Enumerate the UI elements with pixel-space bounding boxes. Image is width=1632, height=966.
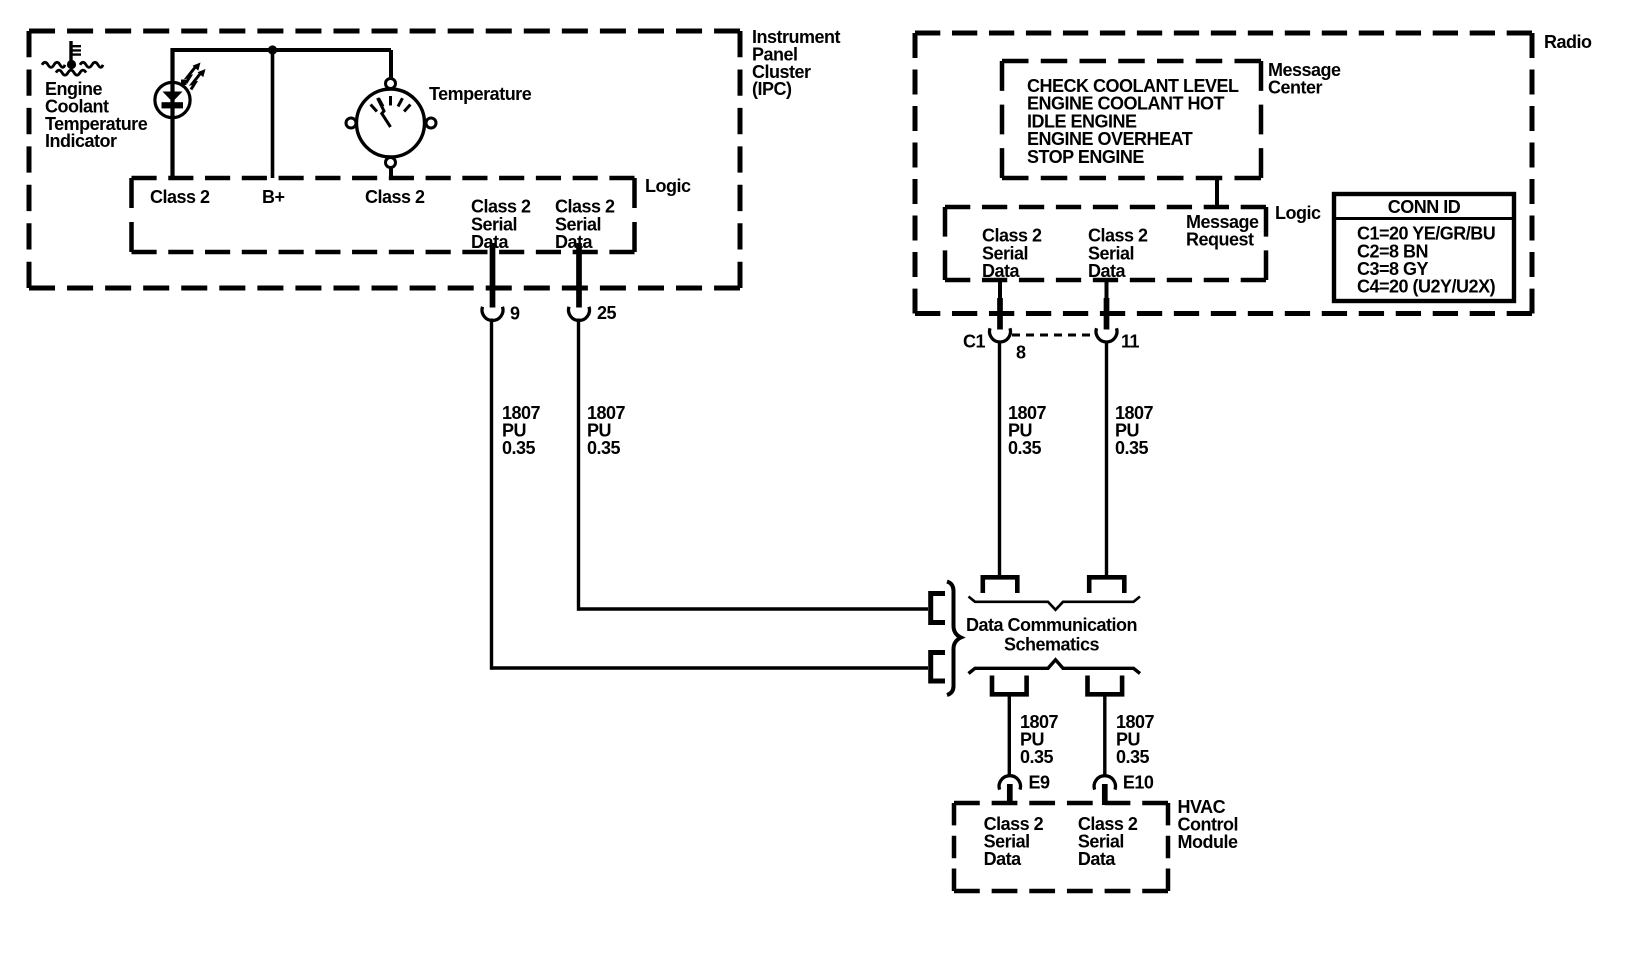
module box: Instrument Panel Cluster (IPC) [29,31,740,288]
wire: gauge bottom to logic [389,168,393,178]
svg-text:Class 2: Class 2 [150,187,210,207]
label Instrument Panel Cluster (IPC) [752,27,841,99]
svg-text:(IPC): (IPC) [752,79,792,99]
dashed connector tie C1 [1012,334,1090,337]
message center box [1002,61,1261,178]
wire 1807 PU from radio pin 11 [1105,341,1108,576]
svg-text:B+: B+ [262,187,285,207]
svg-text:Data: Data [555,232,594,252]
terminal: wire from radio pin 11 into data comm [1089,577,1124,593]
label Data Communication Schematics [966,615,1137,654]
wire label 1807 PU 0.35 (pin 25 wire) [587,403,626,458]
svg-text:C1: C1 [963,332,985,352]
pin stub: HVAC pin E10 [1102,784,1108,805]
pin label Class 2 Serial Data (HVAC E10) [1078,814,1138,869]
IPC logic box [132,178,635,252]
wire label 1807 PU 0.35 (pin 9 wire) [502,403,541,458]
svg-text:0.35: 0.35 [1008,438,1042,458]
svg-text:Radio: Radio [1544,32,1592,52]
label Message Request [1186,212,1259,249]
wire 1807 PU from IPC pin 25 [577,319,580,611]
svg-text:E10: E10 [1123,773,1154,793]
terminal: wire to HVAC E10 from data comm [1088,676,1123,695]
wire label 1807 PU 0.35 (E9 wire) [1020,712,1059,767]
pin label Class 2 Serial Data (HVAC E9) [984,814,1044,869]
pin label Class 2 Serial Data (radio pin 11) [1088,226,1148,281]
terminal: wire to HVAC E9 from data comm [992,676,1027,695]
svg-text:Request: Request [1186,230,1254,250]
svg-text:Data: Data [984,849,1023,869]
svg-text:0.35: 0.35 [1116,747,1150,767]
svg-text:Center: Center [1268,78,1323,98]
connector cup: radio C1 pin 8 [990,328,1011,342]
wire: horizontal run to data comm connector (lower) [492,666,929,670]
wire label 1807 PU 0.35 (pin 11 wire) [1115,403,1154,458]
wire: horizontal run to data comm connector (upper) [579,607,929,611]
terminal: wire from radio pin 8 into data comm [983,577,1018,593]
label Message Center [1268,60,1341,97]
brace: left off-page group [947,582,961,696]
wire 1807 PU to HVAC E9 [1008,697,1011,777]
svg-text:9: 9 [510,304,520,324]
wire: radio pin 11 inside box [1105,280,1109,300]
connector cup: HVAC pin E9 [999,776,1020,790]
brace: upper data comm [969,597,1141,610]
svg-text:0.35: 0.35 [1115,438,1149,458]
module box: Radio [915,33,1532,314]
wire 1807 PU from radio pin 8 [998,341,1001,576]
CONN ID rows [1357,224,1496,297]
svg-text:0.35: 0.35 [1020,747,1054,767]
wire label 1807 PU 0.35 (pin 8 wire) [1008,403,1047,458]
node: B+ junction dot [268,45,277,54]
CONN ID table [1334,194,1514,301]
svg-text:8: 8 [1016,343,1026,363]
wire: B+ branch [271,50,275,178]
label Engine Coolant Temperature Indicator [45,79,148,151]
svg-text:Schematics: Schematics [1004,634,1100,654]
brace: lower data comm [969,660,1141,674]
svg-text:Logic: Logic [1275,203,1321,223]
svg-text:STOP ENGINE: STOP ENGINE [1027,147,1144,167]
pin stub: radio pin 8 [997,298,1003,330]
svg-text:Data: Data [1078,849,1117,869]
pin label Class 2 Serial Data (IPC pin 25) [555,197,615,252]
wire 1807 PU from IPC pin 9 [490,319,493,670]
pin stub: IPC pin 25 [576,243,582,308]
off-page bracket (upper, wire from IPC pin 25) [931,594,945,623]
svg-text:CONN ID: CONN ID [1388,197,1461,217]
module box: HVAC Control Module [954,803,1168,891]
svg-text:0.35: 0.35 [502,438,536,458]
wire: message center to logic [1215,178,1219,207]
svg-text:Data Communication: Data Communication [966,615,1137,635]
wire label 1807 PU 0.35 (E10 wire) [1116,712,1155,767]
pin label Class 2 Serial Data (IPC pin 9) [471,197,531,252]
pin stub: HVAC pin E9 [1007,784,1013,805]
svg-text:Indicator: Indicator [45,131,117,151]
svg-text:Temperature: Temperature [429,84,532,104]
svg-text:E9: E9 [1029,773,1051,793]
svg-text:11: 11 [1121,332,1140,352]
wire 1807 PU to HVAC E10 [1103,697,1106,777]
message center text [1027,76,1239,167]
engine coolant temperature indicator icon (thermometer in coolant) [42,41,103,75]
svg-text:Module: Module [1178,832,1238,852]
connector cup: IPC pin 25 [569,307,590,321]
label HVAC Control Module [1178,797,1238,852]
svg-text:0.35: 0.35 [587,438,621,458]
svg-text:C4=20 (U2Y/U2X): C4=20 (U2Y/U2X) [1357,277,1496,297]
svg-text:25: 25 [597,303,617,323]
wire: top bus from indicator to gauge [173,48,392,52]
wire: gauge top branch [389,50,393,78]
pin stub: radio pin 11 [1104,298,1110,330]
wire: indicator LED branch [170,48,174,178]
svg-text:Data: Data [982,261,1021,281]
indicator LED symbol [155,82,190,117]
connector cup: IPC pin 9 [482,307,503,321]
svg-text:Logic: Logic [645,176,691,196]
pin label Class 2 Serial Data (radio pin 8) [982,226,1042,281]
svg-text:Data: Data [1088,261,1127,281]
off-page bracket (lower, wire from IPC pin 9) [931,653,945,682]
connector cup: HVAC pin E10 [1094,776,1115,790]
wire: radio pin 8 inside box [998,280,1002,300]
svg-text:Class 2: Class 2 [365,187,425,207]
radio logic box [945,207,1266,280]
temperature gauge symbol [346,79,436,168]
LED emission arrows [181,63,206,90]
connector cup: radio C1 pin 11 [1096,328,1117,342]
pin stub: IPC pin 9 [490,243,496,308]
